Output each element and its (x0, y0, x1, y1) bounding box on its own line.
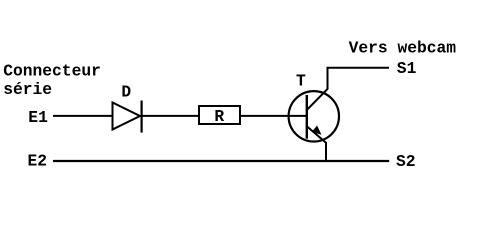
svg-text:E2: E2 (28, 152, 48, 171)
svg-text:S1: S1 (397, 59, 417, 78)
svg-text:E1: E1 (28, 108, 48, 127)
svg-text:S2: S2 (396, 152, 416, 171)
wire collector to S1 (307, 68, 389, 110)
wire E2 to S2 (53, 160, 389, 162)
svg-text:Vers webcam: Vers webcam (349, 39, 457, 58)
svg-text:D: D (121, 82, 131, 101)
svg-text:série: série (3, 80, 52, 99)
wire emitter to bottom rail (307, 126, 326, 161)
wire E1 to diode (53, 115, 113, 117)
wire resistor to transistor base (240, 115, 307, 117)
resistor R (199, 106, 240, 124)
svg-text:R: R (214, 107, 224, 126)
wire diode to resistor (142, 115, 200, 117)
diode D (113, 103, 141, 130)
transistor T (289, 91, 339, 141)
svg-text:T: T (296, 72, 306, 91)
svg-text:Connecteur: Connecteur (3, 61, 101, 80)
